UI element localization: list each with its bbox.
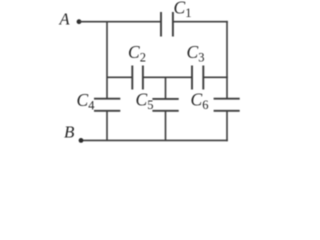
svg-text:C2: C2 bbox=[128, 42, 146, 64]
capacitor C1 bbox=[161, 12, 173, 37]
capacitor C6 bbox=[214, 99, 240, 111]
svg-text:C3: C3 bbox=[187, 42, 205, 64]
wire middle: C2 right plate to C3 left plate bbox=[143, 76, 192, 78]
capacitor C5 bbox=[152, 99, 178, 111]
svg-text:A: A bbox=[59, 10, 71, 29]
capacitor C3 bbox=[192, 66, 203, 90]
node B terminal dot bbox=[79, 138, 84, 143]
wire bottom: B dot to bottom-right corner bbox=[81, 139, 228, 141]
svg-text:C4: C4 bbox=[77, 90, 96, 112]
wire left vertical: top wire down to C4 top plate bbox=[106, 22, 108, 99]
wire middle: left vertical to C2 left plate bbox=[107, 76, 132, 78]
capacitor C4 bbox=[94, 99, 120, 111]
capacitor C2 bbox=[132, 66, 143, 90]
wire right vertical: C6 bottom plate to bottom wire bbox=[226, 111, 228, 141]
svg-text:B: B bbox=[64, 123, 75, 142]
wire top: C1 right plate to top-right corner bbox=[173, 21, 228, 23]
wire top: A dot to C1 left plate bbox=[79, 21, 161, 23]
wire C5 branch: C5 bottom plate to bottom wire bbox=[165, 111, 167, 141]
node A terminal dot bbox=[77, 19, 82, 24]
svg-text:C5: C5 bbox=[136, 90, 154, 112]
wire middle: C3 right plate to right vertical bbox=[203, 76, 228, 78]
wire right vertical: top corner down to C6 top plate bbox=[226, 21, 228, 99]
wire C5 branch: middle wire down to C5 top plate bbox=[165, 77, 167, 99]
svg-text:C6: C6 bbox=[191, 90, 209, 112]
svg-text:C1: C1 bbox=[174, 0, 192, 20]
wire left vertical: C4 bottom plate to bottom wire bbox=[106, 111, 108, 141]
